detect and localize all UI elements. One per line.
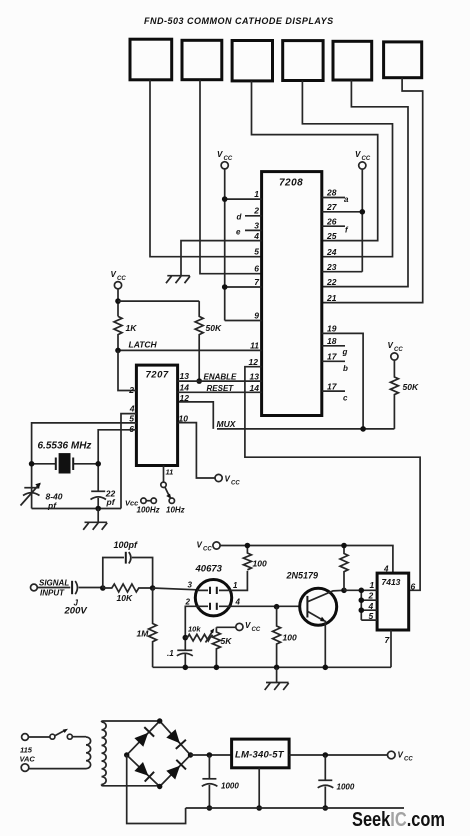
node Q2 collector junction [341,588,347,594]
resistor R5 100 drain load [243,546,251,570]
bridge rectifier BR1 [124,718,193,789]
trimmer capacitor C1 8-40pf [21,483,41,506]
wire U1 pin 26 stub (f) [322,225,345,227]
wire MUX line [217,428,394,430]
node LATCH junction [115,348,121,354]
switch S1 range [161,482,175,503]
node U1 pin7/Vcc junction [222,284,228,290]
wire AC top to switch [28,736,49,738]
svg-text:7: 7 [254,277,260,287]
wire U2 pin 10 to Vcc terminal [178,423,215,478]
node C7 bottom [323,805,329,811]
node gate2/10k junction [183,635,189,641]
display DS2 [182,40,222,79]
svg-text:b: b [343,364,348,373]
svg-text:27: 27 [326,202,338,212]
svg-text:10k: 10k [188,625,201,634]
wire U4 pin 4 stub [361,609,377,611]
svg-text:1000: 1000 [221,782,239,791]
wire bridge plus to U5 [191,754,232,756]
wire PSU ground rail [186,807,404,809]
svg-text:4: 4 [129,404,135,414]
svg-text:6.5536 MHz: 6.5536 MHz [38,441,92,452]
svg-text:200V: 200V [64,606,88,617]
svg-text:a: a [344,195,349,204]
wire to input stage ground [276,667,278,682]
svg-text:1: 1 [254,189,259,199]
node Vcc/R2 branch [115,298,121,304]
wire DS6 to U1 pin 21 [322,78,423,303]
svg-text:MUX: MUX [217,419,237,429]
wire U4 pin 7 to rail [390,630,392,667]
svg-text:3: 3 [254,221,259,231]
svg-text:115: 115 [20,746,33,755]
wire U1 pin 4 to ground [181,241,262,276]
wire U1 pin 1 [225,198,262,200]
svg-text:2: 2 [368,591,374,601]
wire bridge minus to ground rail [127,755,186,824]
capacitor C7 1000 [318,755,334,808]
node C7 top [323,752,329,758]
diode D2 top-right [166,729,180,743]
wire to Q1 gate 1 [153,588,197,590]
svg-text:7208: 7208 [279,178,303,189]
node input junction [100,585,106,591]
svg-text:19: 19 [327,324,337,334]
svg-text:50K: 50K [206,323,222,333]
wire bottom rail [153,666,391,668]
node pin19/MUX junction [360,426,366,432]
svg-text:28: 28 [326,188,337,198]
Vcc output terminal [388,751,414,763]
pin labels U1 right [326,188,338,392]
svg-text:12: 12 [180,393,190,403]
node base/R9 junction [274,604,280,610]
svg-text:d: d [237,213,243,222]
svg-text:10K: 10K [117,593,133,603]
wire Vcc to U1 pins 27,23 [361,169,363,272]
capacitor C6 1000 [202,755,218,808]
svg-text:6: 6 [129,424,134,434]
wire DS3 to U1 pin 25 [252,81,378,241]
wire switch to transformer primary [72,736,86,738]
svg-text:100pf: 100pf [114,540,139,550]
wire Q1 drain to R5 [230,571,247,591]
node C6 top [207,752,213,758]
svg-text:V: V [225,475,231,484]
wire U2 pin 6 to crystal right [98,430,136,492]
wire U2 pin 2 to LATCH [118,350,136,390]
node C2 ground junction [95,506,101,512]
node U4 pin2 tie [359,597,365,603]
wire branch to R2 50K [118,300,199,302]
wire U2 pin 11 to range switch [163,466,165,482]
svg-text:100Hz: 100Hz [137,506,160,515]
wire to oscillator ground [97,509,99,523]
pin labels U4 [368,580,416,645]
svg-text:FND-503 COMMON CATHODE DISPLAY: FND-503 COMMON CATHODE DISPLAYS [144,16,334,26]
wire Vcc down to R1 [117,289,119,317]
wire RESET line U2 pin14 to U1 pin14 [178,391,262,393]
Vcc terminal for R8 [236,621,261,633]
display DS5 [333,41,372,80]
svg-text:2: 2 [253,206,259,216]
svg-text:CC: CC [231,481,240,487]
capacitor C2 22pf [91,491,107,508]
wire Vcc to U1 pins 1,7,9 [224,169,226,321]
wire U1 pin 19 to MUX line [322,333,363,429]
svg-text:50K: 50K [403,382,419,392]
svg-text:1000: 1000 [337,783,355,792]
wire Q1 gate2 down [185,606,197,650]
svg-text:7413: 7413 [382,577,401,587]
svg-text:25: 25 [326,231,337,241]
svg-text:2: 2 [185,598,191,607]
svg-text:21: 21 [326,293,337,303]
svg-text:SIGNAL: SIGNAL [39,579,69,588]
wire U1 pin 2 stub (d) [245,215,262,217]
svg-text:6: 6 [254,264,259,274]
resistor R9 100 base [273,607,281,668]
svg-text:24: 24 [326,247,337,257]
svg-text:23: 23 [326,262,337,272]
svg-text:V: V [245,621,251,630]
svg-text:7207: 7207 [146,370,169,381]
svg-text:.1: .1 [167,649,174,658]
svg-text:ENABLE: ENABLE [204,373,238,382]
transformer T1 primary [86,737,91,769]
Vcc symbol right of U1 (pin 27 net) [355,150,371,169]
ground for U1 pin 4 [166,276,190,284]
svg-text:1K: 1K [126,323,138,333]
svg-text:V: V [388,341,394,350]
display DS6 [384,42,422,78]
node U4 pin1 tie [359,588,365,594]
wire bottom oscillator node [32,508,121,510]
node R9 bottom / ground stub [274,665,280,671]
svg-text:1M: 1M [137,629,150,639]
node R2/ENABLE junction [196,378,202,384]
wire U1 pin 17 stub (b) [322,360,345,362]
svg-text:26: 26 [326,217,337,227]
svg-text:LATCH: LATCH [129,340,158,350]
node Q2 emitter/rail [323,665,329,671]
wire U4 input tie vertical [360,590,362,620]
svg-text:V: V [111,270,117,279]
wire DS2 to U1 pin 6 [200,80,262,274]
svg-text:5: 5 [369,611,374,621]
display DS4 [283,41,323,81]
svg-text:3: 3 [188,581,193,590]
svg-text:pf: pf [106,497,116,507]
resistor R3 50K (to MUX line) [390,360,398,429]
node U4 pin4 tie [359,607,365,613]
wire DS5 to U1 pin 22 [322,80,408,287]
svg-text:2: 2 [128,385,134,395]
diode D3 bottom-left [134,762,148,776]
wire U1 pin 3 stub (e) [245,229,262,231]
resistor R6 1M [149,588,157,667]
resistor R8 5K [212,627,220,667]
wire DS4 to U1 pin 24 [302,81,392,257]
svg-text:2N5179: 2N5179 [286,571,319,581]
node U5 ground/rail [256,805,262,811]
node crystal right [95,461,101,467]
svg-text:5: 5 [254,247,259,257]
wire LATCH line to U1 pin 11 [118,349,262,351]
IC U1 7208 body [262,172,322,416]
pin labels U2 left [128,385,135,434]
wire U4 pin 5 stub [361,619,377,621]
svg-text:17: 17 [327,352,338,362]
wire U5 output to Vcc terminal [289,754,388,756]
svg-text:e: e [236,228,241,237]
display DS1 [130,39,172,80]
node R10 top [341,543,347,549]
svg-text:LM-340-5T: LM-340-5T [235,750,285,761]
wire U5 ground pin [258,768,260,808]
svg-text:SeekIC.com: SeekIC.com [352,809,445,831]
ground oscillator [83,522,107,530]
capacitor C4 100pf bypass loop [103,552,153,588]
transformer T1 secondary [102,722,107,784]
bridge corner nodes [157,718,162,723]
svg-text:13: 13 [180,371,190,381]
svg-text:17: 17 [327,382,338,392]
resistor R10 collector load [340,546,348,591]
resistor R1 1K [114,316,122,350]
svg-text:CC: CC [394,347,403,353]
wire U2 pin 4 to trimmer node [121,414,136,509]
node gate1 junction [150,585,156,591]
wire Q2 collector to U4 pin 1 [344,589,377,591]
svg-text:1: 1 [233,581,238,590]
svg-text:6: 6 [411,582,416,592]
svg-text:1: 1 [370,580,375,590]
wire Q1 drain output to Q2 base [230,605,300,607]
wire DS1 to U1 pin 5 [150,80,262,257]
diode D4 bottom-right [166,766,180,780]
wire ENABLE line U2 pin13 to U1 pin13 [178,380,262,382]
svg-text:4: 4 [253,231,259,241]
regulator U5 LM-340-5T [232,739,290,768]
svg-text:RESET: RESET [207,384,235,393]
capacitor C3 input coupling 200V [37,581,103,594]
node U1 pin27/Vcc junction [360,209,366,215]
Vcc symbol for R3 50K [388,341,404,360]
Vcc symbol left of U1 (pin 1 net) [217,150,233,169]
node R8 bottom [214,665,220,671]
wire U4 pin 2 stub [361,599,377,601]
wire U1 pin 7 [225,286,262,288]
pin labels U1 left [249,189,261,393]
switch S2 power [50,729,72,740]
node U1 pin1/Vcc junction [222,196,228,202]
display DS3 [232,41,272,81]
svg-text:CC: CC [404,757,413,763]
svg-text:5K: 5K [221,636,233,646]
wire U1 pin 9 [225,320,262,322]
wire U1 pin 17 stub (c) [322,390,345,392]
svg-text:11: 11 [166,468,174,477]
svg-text:9: 9 [254,311,259,321]
resistor R4 10K [103,584,153,592]
potentiometer R7 10k [185,634,212,641]
svg-text:14: 14 [180,382,190,392]
svg-text:f: f [345,226,349,235]
svg-text:22: 22 [326,277,337,287]
svg-text:13: 13 [250,372,260,382]
resistor R2 50K (to ENABLE) [195,301,203,381]
terminal 115 VAC top [22,734,29,741]
diode D1 top-left [134,733,148,747]
node C5 bottom [183,665,189,671]
svg-text:CC: CC [203,547,212,553]
svg-text:100: 100 [283,633,297,643]
capacitor C5 .1 [177,650,193,667]
IC U4 7413 body [377,573,409,630]
svg-text:CC: CC [252,627,261,633]
IC U2 7207 body [136,365,177,465]
pin labels U2 right [179,371,190,424]
wire U1 pin 18 stub (g) [322,345,345,347]
svg-text:V: V [355,150,361,159]
ground input stage [265,683,289,691]
Vcc terminal top rail [197,541,221,553]
svg-text:10Hz: 10Hz [166,506,185,515]
svg-text:g: g [342,348,348,357]
switch contact 100Hz with Vcc [125,498,156,508]
Vcc terminal for pin 10 [215,474,240,486]
svg-text:INPUT: INPUT [40,589,65,598]
wire secondary bottom to bridge [102,784,160,785]
svg-text:11: 11 [250,341,259,351]
wire U2 pin 12 to MUX line [178,402,214,429]
wire U4 pin 6 to U1 pin 12 [245,367,420,591]
wire 5K top to Vcc terminal [216,626,235,628]
svg-text:VAC: VAC [20,755,36,764]
svg-text:100: 100 [253,559,267,569]
wire secondary top to bridge [102,721,160,723]
svg-text:7: 7 [385,635,391,645]
svg-text:c: c [343,394,348,403]
wire U1 pin 27 [322,211,363,213]
Vcc symbol for R1/R2 [111,270,127,289]
wire U1 pin 23 [322,271,363,273]
node crystal left [29,461,35,467]
node R5 top [245,543,251,549]
svg-text:5: 5 [129,413,134,423]
wire primary bottom to AC terminal [29,768,86,770]
svg-text:V: V [197,541,203,550]
wire U1 pin 28 stub (a) [322,197,345,199]
svg-text:4: 4 [368,601,374,611]
svg-text:40673: 40673 [195,564,223,575]
svg-text:12: 12 [249,357,259,367]
wiper arrow R7 [206,628,215,642]
terminal 115 VAC bottom [21,764,29,772]
svg-text:V: V [398,751,404,760]
wire Vcc top rail [220,546,393,574]
terminal SIGNAL INPUT [31,584,38,591]
node C6 bottom [207,805,213,811]
wire U2 pin 5 to crystal left [32,423,137,509]
svg-text:18: 18 [327,336,337,346]
svg-text:4: 4 [235,598,241,607]
svg-text:V: V [217,150,223,159]
